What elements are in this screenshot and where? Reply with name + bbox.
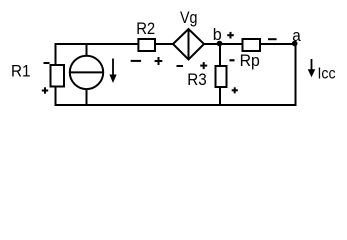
current arrow of source: [109, 59, 116, 84]
resistor Rp: [243, 39, 261, 51]
label minus R2: [131, 60, 141, 62]
wire circle bottom stub: [86, 90, 88, 105]
source Vg internal line: [188, 29, 190, 60]
label plus Vg: [200, 62, 207, 69]
label plus R2: [155, 57, 163, 65]
wire top rail left: [55, 43, 138, 45]
source Vg diamond: [173, 29, 204, 60]
label plus b: [227, 32, 234, 39]
wire Rp to node a: [261, 43, 296, 45]
svg-text:R3: R3: [187, 71, 207, 89]
label plus R3: [232, 87, 238, 93]
label minus Vg: [177, 65, 184, 67]
wire diamond to Rp: [204, 43, 242, 45]
resistor R2: [138, 39, 155, 51]
node b junction dot: [217, 41, 223, 47]
label minus R1: [44, 62, 50, 64]
svg-text:a: a: [292, 27, 301, 45]
svg-text:R2: R2: [136, 20, 155, 38]
wire node b branch down: [219, 44, 221, 65]
source I1 chord: [70, 71, 103, 73]
svg-text:Vg: Vg: [180, 9, 198, 27]
current arrow Icc: [308, 59, 316, 77]
node a junction dot: [292, 41, 298, 47]
label plus R1: [42, 87, 48, 93]
wire R3 bottom stub: [219, 88, 221, 105]
wire left vertical bottom: [55, 87, 57, 107]
wire R2 to diamond: [156, 43, 173, 45]
label minus Rp: [268, 38, 277, 40]
wire bottom rail: [55, 104, 297, 106]
svg-text:Icc: Icc: [318, 66, 336, 83]
svg-text:b: b: [213, 26, 222, 44]
label minus R3: [230, 59, 235, 61]
resistor R1: [51, 65, 65, 87]
svg-text:Rp: Rp: [240, 52, 260, 70]
wire left vertical top: [55, 43, 57, 65]
source I1 circle: [70, 56, 103, 89]
wire right vertical: [295, 43, 297, 106]
resistor R3: [216, 66, 227, 87]
svg-text:R1: R1: [11, 63, 31, 81]
wire circle top stub: [86, 44, 88, 55]
